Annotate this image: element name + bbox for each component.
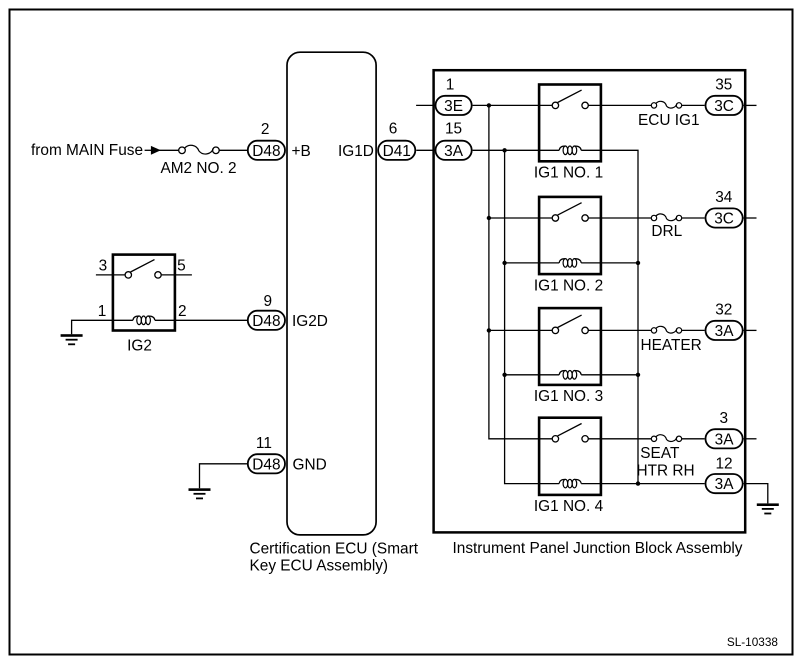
connector 3A pin 15 bbox=[436, 121, 472, 160]
connector 3C pin 34 bbox=[706, 189, 743, 228]
svg-text:D48: D48 bbox=[252, 313, 280, 330]
stub wire out of connector 3C pin 34 bbox=[744, 217, 757, 219]
svg-text:SL-10338: SL-10338 bbox=[727, 635, 779, 649]
svg-text:3: 3 bbox=[99, 257, 108, 274]
relay IG1 NO. 3 bbox=[534, 308, 603, 405]
connector 3A pin 32 bbox=[706, 301, 743, 340]
svg-text:SEAT: SEAT bbox=[640, 445, 680, 462]
label: from MAIN Fuse bbox=[31, 142, 143, 159]
op Certification ECU box bbox=[287, 52, 376, 535]
svg-text:HTR RH: HTR RH bbox=[637, 463, 695, 480]
relay IG1 NO. 1 bbox=[534, 85, 603, 182]
fuse ECU IG1 bbox=[638, 101, 700, 129]
caption Certification ECU bbox=[250, 540, 419, 574]
figure number SL-10338 bbox=[727, 635, 779, 649]
svg-text:3: 3 bbox=[720, 410, 729, 427]
fuse AM2 NO. 2 bbox=[160, 145, 236, 177]
svg-text:12: 12 bbox=[715, 455, 732, 472]
connector 3C pin 35 bbox=[706, 76, 743, 115]
bus line A (3E to relay switches) bbox=[489, 105, 552, 438]
svg-text:IG1 NO. 1: IG1 NO. 1 bbox=[534, 165, 603, 182]
wire fuse to connector 3A pin 3 bbox=[682, 438, 705, 440]
svg-text:+B: +B bbox=[292, 143, 311, 160]
ground (ECU GND) bbox=[189, 488, 211, 499]
ECU terminal label GND bbox=[293, 456, 327, 473]
connector 3E pin 1 bbox=[436, 76, 472, 115]
wire relay switch to fuse (ECU IG1) bbox=[588, 104, 651, 106]
wire D41 to 3A bbox=[416, 149, 435, 151]
svg-text:3E: 3E bbox=[444, 98, 463, 115]
wire fuse to connector 3C pin 34 bbox=[682, 217, 705, 219]
svg-text:1: 1 bbox=[446, 76, 455, 93]
stub wire out of connector 3C pin 35 bbox=[744, 104, 757, 106]
svg-text:IG2: IG2 bbox=[127, 338, 152, 355]
caption Instrument Panel Junction Block Assembly bbox=[453, 540, 743, 557]
svg-text:3C: 3C bbox=[714, 98, 734, 115]
svg-text:Key ECU Assembly): Key ECU Assembly) bbox=[250, 557, 389, 574]
fuse SEAT bbox=[637, 435, 695, 480]
svg-text:34: 34 bbox=[715, 189, 733, 206]
wire connector 3A pin 12 to ground bbox=[744, 484, 768, 504]
svg-text:3A: 3A bbox=[715, 476, 735, 493]
svg-text:D41: D41 bbox=[383, 143, 411, 160]
connector D41 pin 6 (IG1D) bbox=[378, 121, 415, 160]
wire 3E to relay IG1 NO.1 switch bbox=[473, 104, 553, 106]
wire relay switch to fuse (SEAT) bbox=[588, 438, 651, 440]
junction node on 3E row bbox=[487, 103, 491, 107]
bus line C (coil returns) bbox=[581, 150, 638, 483]
svg-text:DRL: DRL bbox=[651, 223, 682, 240]
svg-text:11: 11 bbox=[256, 435, 272, 452]
svg-text:35: 35 bbox=[715, 76, 732, 93]
arrow into +B wire bbox=[145, 146, 161, 155]
wire relay switch to fuse (HEATER) bbox=[588, 329, 651, 331]
svg-text:D48: D48 bbox=[252, 456, 280, 473]
svg-text:AM2 NO. 2: AM2 NO. 2 bbox=[160, 160, 236, 177]
stub wire out of connector 3A pin 3 bbox=[744, 438, 757, 440]
svg-text:HEATER: HEATER bbox=[641, 337, 702, 354]
ECU terminal label IG1D bbox=[338, 143, 374, 160]
svg-text:IG1 NO. 4: IG1 NO. 4 bbox=[534, 498, 604, 515]
IG2 pin 5 stub bbox=[161, 257, 192, 275]
svg-text:32: 32 bbox=[715, 301, 732, 318]
svg-text:D48: D48 bbox=[252, 143, 280, 160]
relay IG2 bbox=[113, 255, 175, 355]
svg-text:IG1 NO. 3: IG1 NO. 3 bbox=[534, 388, 603, 405]
wire relay IG1 NO.2 coil to bus C bbox=[581, 261, 640, 265]
wire bus B to relay IG1 NO.3 coil bbox=[502, 373, 559, 377]
ECU terminal label IG2D bbox=[292, 313, 328, 330]
junction node on 3A row bbox=[502, 148, 506, 152]
wire arrow to fuse AM2 bbox=[159, 149, 179, 151]
relay IG1 NO. 4 bbox=[534, 418, 604, 516]
svg-text:IG1D: IG1D bbox=[338, 143, 374, 160]
svg-text:ECU IG1: ECU IG1 bbox=[638, 112, 700, 129]
bus line B (3A to relay coils) bbox=[505, 150, 560, 483]
connector D48 pin 2 (+B) bbox=[248, 121, 285, 160]
IG2 pin 1 wire to ground bbox=[72, 303, 133, 334]
wire fuse to connector 3A pin 32 bbox=[682, 329, 705, 331]
IG2 pin 3 stub bbox=[96, 257, 125, 275]
svg-text:GND: GND bbox=[293, 456, 327, 473]
svg-text:from MAIN Fuse: from MAIN Fuse bbox=[31, 142, 143, 159]
stub wire into 3E bbox=[416, 104, 435, 106]
relay IG1 NO. 2 bbox=[534, 197, 603, 295]
wire 3A to relay IG1 NO.1 coil bbox=[473, 149, 560, 151]
svg-text:2: 2 bbox=[178, 303, 187, 320]
Instrument Panel Junction Block box bbox=[434, 70, 746, 532]
connector D48 pin 11 (GND) bbox=[248, 435, 285, 474]
IG2 pin 2 wire to D48 pin 9 bbox=[155, 303, 248, 321]
svg-text:Certification ECU (Smart: Certification ECU (Smart bbox=[250, 540, 419, 557]
wire fuse to connector D48 pin 2 bbox=[219, 149, 247, 151]
ground (IG2) bbox=[61, 334, 83, 345]
svg-text:IG2D: IG2D bbox=[292, 313, 328, 330]
ECU terminal label +B bbox=[292, 143, 311, 160]
connector 3A pin 3 bbox=[706, 410, 743, 449]
wire bus A to relay IG1 NO.3 switch bbox=[487, 328, 553, 332]
stub wire out of connector 3A pin 32 bbox=[744, 329, 757, 331]
svg-text:3A: 3A bbox=[444, 143, 464, 160]
svg-text:3A: 3A bbox=[715, 323, 735, 340]
svg-text:3A: 3A bbox=[715, 431, 735, 448]
svg-text:2: 2 bbox=[261, 121, 270, 138]
connector D48 pin 9 (IG2D) bbox=[248, 293, 285, 330]
wire bus A to relay IG1 NO.2 switch bbox=[487, 216, 553, 220]
wire relay switch to fuse (DRL) bbox=[588, 217, 651, 219]
svg-text:15: 15 bbox=[445, 121, 462, 138]
svg-text:3C: 3C bbox=[714, 211, 734, 228]
fuse HEATER bbox=[641, 326, 702, 354]
fuse DRL bbox=[651, 214, 682, 240]
ground (junction block) bbox=[757, 503, 779, 514]
connector 3A pin 12 bbox=[706, 455, 743, 493]
svg-text:9: 9 bbox=[264, 293, 273, 310]
svg-text:IG1 NO. 2: IG1 NO. 2 bbox=[534, 277, 603, 294]
wire bus B to relay IG1 NO.2 coil bbox=[502, 261, 559, 265]
wire ground to D48 pin 11 bbox=[200, 464, 248, 489]
wire relay IG1 NO.4 coil to connector 3A pin 12 bbox=[581, 481, 704, 485]
wire relay IG1 NO.3 coil to bus C bbox=[581, 373, 640, 377]
svg-text:Instrument Panel Junction Bloc: Instrument Panel Junction Block Assembly bbox=[453, 540, 743, 557]
svg-text:6: 6 bbox=[389, 121, 398, 138]
wire fuse to connector 3C pin 35 bbox=[682, 104, 705, 106]
svg-text:5: 5 bbox=[177, 257, 186, 274]
svg-text:1: 1 bbox=[98, 303, 107, 320]
